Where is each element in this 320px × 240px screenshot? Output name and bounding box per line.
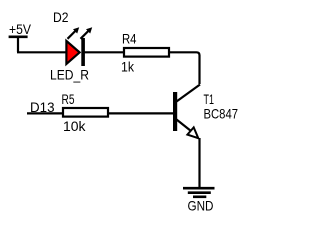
+5V power symbol <box>9 21 32 52</box>
wire R5 to base <box>107 112 173 114</box>
wire LED cathode to R4 <box>84 51 124 53</box>
svg-text:LED_R: LED_R <box>50 67 89 83</box>
wire D13 to R5 <box>27 112 64 114</box>
svg-text:+5V: +5V <box>9 21 32 37</box>
resistor R4 <box>124 48 169 57</box>
LED D2 <box>66 27 92 66</box>
svg-text:BC847: BC847 <box>204 106 239 122</box>
svg-text:D2: D2 <box>53 9 69 25</box>
svg-text:R4: R4 <box>122 31 137 47</box>
ground <box>183 188 215 213</box>
svg-text:10k: 10k <box>63 118 86 134</box>
svg-text:R5: R5 <box>62 91 75 107</box>
transistor T1 <box>173 85 200 139</box>
wire emitter to ground <box>198 138 200 188</box>
svg-text:1k: 1k <box>121 59 135 75</box>
wire R4 to collector <box>169 52 200 84</box>
resistor R5 <box>63 108 108 117</box>
wire +5V to LED anode <box>17 51 66 53</box>
svg-text:GND: GND <box>188 198 214 214</box>
